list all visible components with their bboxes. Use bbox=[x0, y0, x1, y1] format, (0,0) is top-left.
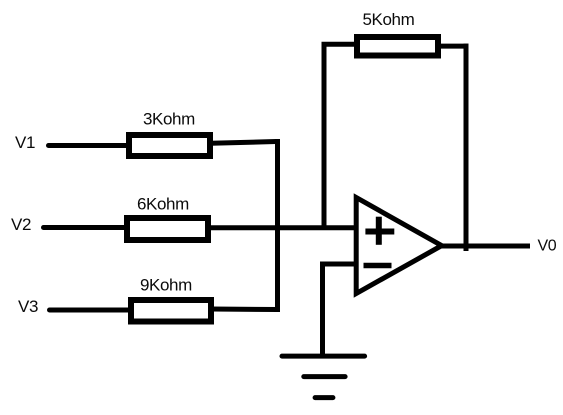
wire R1 to summing bus bbox=[211, 142, 276, 144]
wire to ground bbox=[320, 262, 325, 357]
wire V3 lead bbox=[50, 308, 131, 313]
svg-text:V1: V1 bbox=[15, 133, 35, 152]
resistor R3 9Kohm bbox=[131, 300, 211, 322]
ground bottom bar bbox=[315, 395, 333, 400]
wire feedback right vertical bbox=[464, 44, 469, 251]
svg-text:V0: V0 bbox=[538, 238, 557, 255]
op-amp minus input marking bbox=[364, 263, 392, 269]
wire V2 lead bbox=[44, 225, 128, 230]
op-amp U1 triangle bbox=[356, 198, 442, 294]
svg-text:6Kohm: 6Kohm bbox=[137, 195, 189, 214]
wire R3 to summing bus bbox=[211, 307, 277, 313]
ground top bar bbox=[282, 354, 365, 359]
op-amp plus input marking bbox=[365, 217, 394, 245]
svg-text:V2: V2 bbox=[11, 215, 31, 234]
wire feedback top left bbox=[322, 42, 359, 47]
wire feedback top right bbox=[437, 44, 469, 49]
svg-text:5Kohm: 5Kohm bbox=[363, 10, 415, 29]
svg-text:9Kohm: 9Kohm bbox=[140, 276, 192, 295]
wire inverting input bbox=[323, 262, 359, 267]
resistor Rf 5Kohm bbox=[357, 37, 438, 56]
resistor R2 6Kohm bbox=[127, 218, 208, 240]
resistor R1 3Kohm bbox=[129, 135, 210, 156]
ground middle bar bbox=[304, 374, 345, 379]
wire feedback left vertical bbox=[322, 42, 327, 230]
svg-text:3Kohm: 3Kohm bbox=[143, 110, 195, 129]
wire V1 lead bbox=[49, 143, 129, 148]
wire summing bus vertical bbox=[275, 139, 280, 312]
svg-text:V3: V3 bbox=[18, 297, 38, 316]
wire R2 to op-amp noninverting input bbox=[208, 225, 358, 230]
wire output bbox=[441, 244, 530, 249]
